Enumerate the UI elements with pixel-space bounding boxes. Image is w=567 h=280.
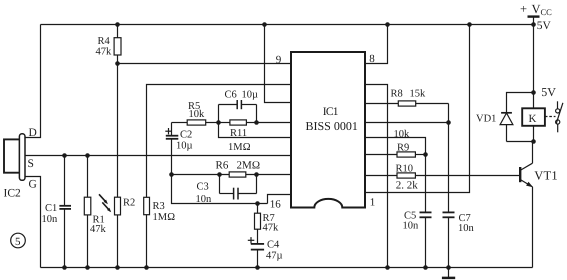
resistor R7 (255, 204, 280, 244)
svg-text:+: + (520, 2, 527, 16)
wire C2/R6 node down to R7 line (172, 175, 268, 204)
resistor R4 (96, 25, 122, 64)
node dot rail at Vcc (531, 22, 536, 27)
node dot rail at pin1 riser (467, 22, 472, 27)
resistor R2 photoresistor (115, 197, 136, 267)
dashed link relay to switch (545, 116, 556, 118)
node dot R6/C3 left (217, 172, 222, 177)
svg-text:10n: 10n (403, 220, 420, 231)
resistor R10 (365, 164, 418, 192)
svg-text:R9: R9 (397, 142, 409, 153)
node dot rail C1 (62, 265, 67, 270)
wire node x218 drop to IC1 pin y137 (219, 123, 292, 138)
svg-text:9: 9 (276, 54, 282, 66)
capacitor C4 electrolytic (248, 237, 283, 267)
node dot rail C4 (255, 265, 260, 270)
node dot rail C7/ground (446, 265, 451, 270)
wire relay branch top (533, 25, 535, 109)
resistor R11 (219, 120, 257, 153)
svg-text:2. 2k: 2. 2k (396, 179, 419, 191)
node dot rail C5 (423, 265, 428, 270)
svg-text:47µ: 47µ (266, 251, 283, 262)
svg-text:S: S (28, 158, 34, 170)
svg-text:C1: C1 (45, 203, 57, 214)
op-amp IC1 box (291, 52, 365, 208)
node dot rail R2 (115, 265, 120, 270)
svg-text:16: 16 (270, 198, 282, 210)
resistor R6 (216, 160, 261, 178)
capacitor C7 (443, 212, 475, 267)
wire x448 down to C7 (448, 123, 450, 213)
svg-text:C2: C2 (180, 129, 192, 140)
svg-text:V: V (532, 2, 541, 16)
node dot R6/C3 right (254, 172, 259, 177)
svg-text:C3: C3 (197, 181, 209, 192)
wire ground pin drop x387 (365, 85, 388, 268)
wire x425 down to C5 (425, 155, 427, 213)
svg-text:R8: R8 (391, 89, 403, 100)
wire rail riser x264 to IC1 pin (265, 25, 292, 103)
node dot R11/C6 right junction (254, 120, 259, 125)
node dot at R7 top (255, 201, 260, 206)
svg-text:10µ: 10µ (176, 141, 193, 152)
wire S line from sensor to IC1 (25, 155, 291, 157)
power +Vcc symbol (520, 2, 552, 32)
svg-text:R10: R10 (396, 164, 414, 175)
svg-text:VT1: VT1 (534, 169, 558, 183)
svg-text:R3: R3 (153, 201, 165, 212)
relay switch contact (556, 101, 563, 132)
relay K (522, 108, 545, 141)
wire R5 left corner down to C2 (171, 123, 173, 136)
wire pin y137 to R9 right (365, 138, 426, 155)
svg-text:47k: 47k (90, 224, 107, 235)
svg-text:10n: 10n (458, 223, 475, 234)
svg-text:15k: 15k (410, 89, 427, 100)
node dot C2 to R6 line (169, 172, 174, 177)
svg-text:G: G (29, 179, 37, 191)
svg-text:R6: R6 (216, 160, 229, 172)
svg-text:5V: 5V (541, 85, 556, 99)
node dot rail at R4 (115, 22, 120, 27)
wire pin16 step (268, 195, 292, 204)
node dot rail at pin8 riser (385, 22, 390, 27)
capacitor C6 (219, 90, 259, 123)
capacitor C5 (403, 210, 432, 267)
wire R11 junction to IC1 (257, 122, 292, 124)
light arrows of R2 (99, 194, 111, 212)
node dot S-line at C1 (62, 153, 67, 158)
svg-text:C6: C6 (225, 90, 237, 101)
svg-text:2MΩ: 2MΩ (237, 160, 261, 172)
node dot rail R1 (85, 265, 90, 270)
svg-text:IC2: IC2 (4, 187, 22, 199)
node dot S-line at R1 (85, 153, 90, 158)
svg-text:47k: 47k (96, 47, 113, 58)
svg-text:VD1: VD1 (476, 113, 496, 124)
wire diode bottom to collector node (507, 141, 534, 143)
wire diode branch (507, 93, 534, 114)
resistor R9 (365, 142, 426, 157)
capacitor C1 (42, 156, 72, 268)
svg-text:1: 1 (370, 196, 376, 208)
node dot rail x387 (385, 265, 390, 270)
sensor IC2 body (4, 134, 25, 181)
svg-text:R2: R2 (123, 198, 135, 209)
wire IC1 left pin y84 to R3 (147, 85, 292, 198)
wire left D riser (25, 25, 41, 138)
wire pin1 riser (365, 25, 470, 193)
transistor VT1 (520, 142, 558, 268)
capacitor C2 electrolytic (165, 128, 192, 175)
diode VD1 (476, 113, 513, 142)
resistor R5 (172, 101, 219, 125)
wire R10 to VT1 base (415, 175, 519, 177)
svg-text:10k: 10k (394, 129, 411, 140)
svg-text:5V: 5V (537, 20, 552, 32)
capacitor C3 (196, 175, 257, 205)
svg-text:CC: CC (541, 7, 553, 17)
svg-text:47k: 47k (263, 222, 280, 233)
wire bottom ground rail (41, 267, 533, 269)
svg-text:D: D (29, 127, 37, 139)
wire pin9 from R4 to IC1 (118, 63, 292, 65)
resistor R8 (365, 89, 449, 107)
svg-text:BISS 0001: BISS 0001 (306, 119, 358, 133)
resistor R1 (84, 156, 106, 268)
svg-text:10µ: 10µ (242, 90, 259, 101)
wire 10k pin line (365, 122, 449, 124)
svg-text:10n: 10n (42, 214, 59, 225)
svg-text:1MΩ: 1MΩ (153, 212, 176, 223)
svg-text:IC1: IC1 (323, 106, 339, 118)
node dot rail at riser x264 (262, 22, 267, 27)
svg-text:1MΩ: 1MΩ (228, 142, 251, 153)
wire pin8 riser (365, 25, 388, 64)
node dot 5V branch (531, 90, 536, 95)
wire R8 right drop to 10k line (448, 104, 450, 123)
wire top VCC rail (41, 24, 534, 26)
node dot collector top (531, 139, 536, 144)
svg-text:R4: R4 (98, 36, 111, 47)
node dot R4 bottom / pin9 wire (115, 61, 120, 66)
wire left G riser (25, 177, 41, 268)
svg-text:10k: 10k (189, 109, 206, 120)
svg-text:K: K (529, 113, 537, 125)
wire R6 line to IC1 (172, 174, 292, 176)
label circled 5 (11, 233, 26, 248)
svg-text:C4: C4 (267, 239, 280, 250)
node dot x448 y122 (446, 120, 451, 125)
svg-text:5: 5 (15, 236, 21, 248)
node dot rail R3 (144, 265, 149, 270)
node dot R9 right (423, 152, 428, 157)
ground symbol (442, 268, 455, 278)
wire R4 to R2 vertical (117, 64, 119, 198)
node dot R5/R11 junction (216, 120, 221, 125)
resistor R3 (144, 197, 175, 267)
